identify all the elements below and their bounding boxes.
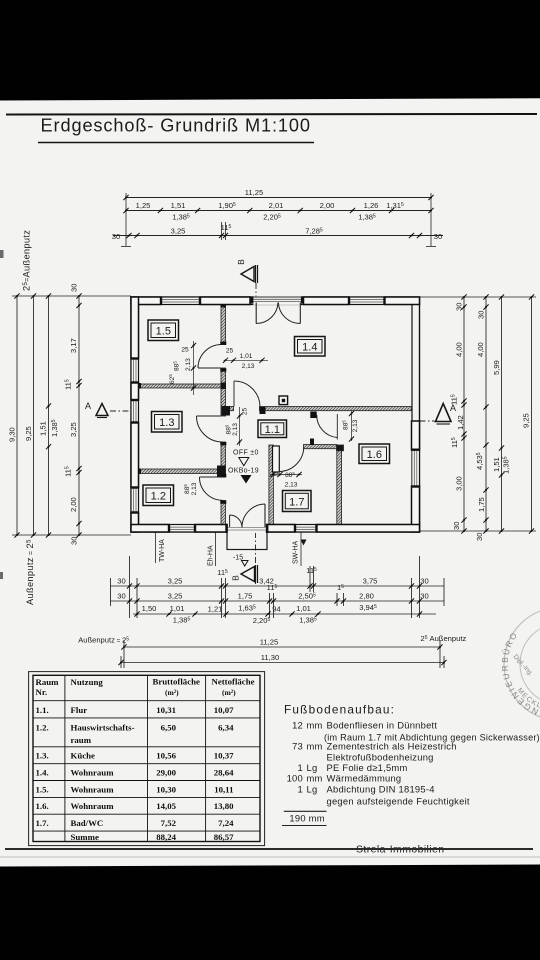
svg-text:1,51: 1,51 bbox=[171, 201, 186, 210]
svg-text:88,24: 88,24 bbox=[156, 832, 176, 842]
svg-text:Raum: Raum bbox=[36, 677, 60, 687]
svg-text:Bodenfliesen in Dünnbett: Bodenfliesen in Dünnbett bbox=[327, 720, 438, 731]
svg-text:6,34: 6,34 bbox=[218, 723, 234, 733]
svg-text:1.7.: 1.7. bbox=[36, 818, 49, 828]
svg-text:25: 25 bbox=[242, 408, 249, 416]
svg-text:2,13: 2,13 bbox=[232, 423, 239, 436]
svg-text:10,37: 10,37 bbox=[214, 751, 234, 761]
svg-text:1: 1 bbox=[298, 762, 303, 773]
svg-text:11,25: 11,25 bbox=[245, 188, 263, 197]
svg-text:1.5.: 1.5. bbox=[36, 784, 49, 794]
svg-text:12: 12 bbox=[292, 720, 303, 731]
svg-text:2,80: 2,80 bbox=[359, 592, 374, 601]
svg-text:2,00: 2,00 bbox=[320, 201, 335, 210]
svg-text:11,25: 11,25 bbox=[260, 638, 278, 647]
svg-text:25: 25 bbox=[273, 471, 281, 478]
svg-text:(m²): (m²) bbox=[165, 688, 179, 697]
svg-text:1,26: 1,26 bbox=[364, 201, 379, 210]
svg-text:30: 30 bbox=[117, 577, 125, 586]
svg-text:7,52: 7,52 bbox=[161, 818, 177, 828]
svg-text:Erdgeschoß- Grundriß M1:100: Erdgeschoß- Grundriß M1:100 bbox=[41, 116, 311, 136]
svg-text:1,75: 1,75 bbox=[477, 497, 486, 512]
svg-text:29,00: 29,00 bbox=[156, 768, 176, 778]
svg-text:mm: mm bbox=[307, 720, 323, 731]
svg-text:gegen aufsteigende Feuchtigkei: gegen aufsteigende Feuchtigkeit bbox=[327, 796, 470, 807]
svg-text:Lg: Lg bbox=[307, 762, 318, 773]
svg-text:10,11: 10,11 bbox=[214, 784, 233, 794]
svg-text:3,25: 3,25 bbox=[171, 227, 186, 236]
svg-text:Hauswirtschafts-: Hauswirtschafts- bbox=[71, 723, 135, 733]
svg-text:Wärmedämmung: Wärmedämmung bbox=[327, 773, 402, 784]
svg-text:2,00: 2,00 bbox=[69, 497, 78, 512]
svg-text:Außenputz = 25: Außenputz = 25 bbox=[25, 539, 35, 605]
svg-text:1,51: 1,51 bbox=[39, 421, 48, 436]
svg-text:Wohnraum: Wohnraum bbox=[71, 784, 115, 794]
svg-text:2,01: 2,01 bbox=[269, 201, 284, 210]
svg-text:30: 30 bbox=[112, 232, 120, 241]
svg-text:1,25: 1,25 bbox=[136, 201, 151, 210]
svg-text:A: A bbox=[450, 403, 456, 413]
svg-text:4,00: 4,00 bbox=[476, 342, 485, 357]
svg-text:1.3.: 1.3. bbox=[36, 751, 49, 761]
svg-text:1,42: 1,42 bbox=[456, 415, 465, 430]
svg-text:TW-HA: TW-HA bbox=[159, 539, 166, 562]
svg-text:1,01: 1,01 bbox=[170, 604, 185, 613]
svg-text:Zementestrich als Heizestrich: Zementestrich als Heizestrich bbox=[327, 741, 457, 752]
svg-text:3,25: 3,25 bbox=[168, 577, 183, 586]
svg-text:Küche: Küche bbox=[71, 751, 96, 761]
svg-text:1,21: 1,21 bbox=[208, 605, 223, 614]
svg-text:1.4.: 1.4. bbox=[36, 768, 49, 778]
svg-text:14,05: 14,05 bbox=[156, 801, 176, 811]
svg-text:A: A bbox=[85, 401, 91, 411]
svg-text:1.3: 1.3 bbox=[159, 417, 174, 429]
svg-text:30: 30 bbox=[420, 592, 428, 601]
svg-text:Abdichtung DIN 18195-4: Abdichtung DIN 18195-4 bbox=[327, 784, 435, 795]
svg-text:1: 1 bbox=[298, 784, 303, 795]
svg-text:6,50: 6,50 bbox=[161, 723, 177, 733]
svg-text:25: 25 bbox=[181, 347, 189, 354]
svg-text:100: 100 bbox=[287, 773, 303, 784]
svg-text:1.2: 1.2 bbox=[151, 491, 166, 503]
svg-text:1.2.: 1.2. bbox=[36, 723, 49, 733]
svg-text:2,13: 2,13 bbox=[285, 482, 298, 489]
svg-text:Lg: Lg bbox=[307, 784, 318, 795]
svg-text:PE Folie d≥1,5mm: PE Folie d≥1,5mm bbox=[327, 762, 408, 773]
svg-text:30: 30 bbox=[70, 284, 79, 292]
svg-text:10,56: 10,56 bbox=[156, 751, 176, 761]
svg-text:28,64: 28,64 bbox=[214, 768, 234, 778]
svg-text:94: 94 bbox=[272, 605, 280, 614]
svg-text:9,25: 9,25 bbox=[522, 413, 531, 428]
svg-text:30: 30 bbox=[70, 537, 79, 545]
svg-text:1.4: 1.4 bbox=[302, 342, 317, 354]
svg-text:3,75: 3,75 bbox=[363, 577, 378, 586]
svg-text:Nutzung: Nutzung bbox=[71, 677, 104, 687]
svg-text:3,17: 3,17 bbox=[69, 338, 78, 353]
svg-text:30: 30 bbox=[455, 303, 464, 311]
svg-text:9,25: 9,25 bbox=[24, 426, 33, 441]
svg-text:10,30: 10,30 bbox=[156, 784, 176, 794]
svg-text:Eh-HA: Eh-HA bbox=[208, 545, 215, 566]
svg-text:Wohnraum: Wohnraum bbox=[71, 768, 115, 778]
svg-text:1,50: 1,50 bbox=[142, 604, 157, 613]
svg-text:Fußbodenaufbau:: Fußbodenaufbau: bbox=[284, 703, 395, 717]
svg-text:Summe: Summe bbox=[71, 832, 99, 842]
svg-text:mm: mm bbox=[307, 773, 323, 784]
svg-text:Elektrofußbodenheizung: Elektrofußbodenheizung bbox=[327, 752, 434, 763]
svg-text:Außenputz = 25: Außenputz = 25 bbox=[78, 636, 129, 645]
svg-text:5,99: 5,99 bbox=[492, 360, 501, 375]
svg-text:30: 30 bbox=[117, 592, 125, 601]
svg-text:raum: raum bbox=[71, 735, 92, 745]
svg-text:1,75: 1,75 bbox=[238, 592, 253, 601]
svg-text:1,01: 1,01 bbox=[240, 353, 253, 360]
svg-text:25: 25 bbox=[226, 348, 234, 355]
svg-text:30: 30 bbox=[434, 232, 442, 241]
svg-text:(m²): (m²) bbox=[222, 688, 236, 697]
svg-text:1.5: 1.5 bbox=[156, 326, 171, 338]
svg-text:1,51: 1,51 bbox=[492, 457, 501, 472]
svg-text:B: B bbox=[236, 259, 246, 265]
svg-text:1.1: 1.1 bbox=[265, 424, 280, 436]
svg-text:190 mm: 190 mm bbox=[289, 813, 324, 824]
svg-text:3,25: 3,25 bbox=[168, 592, 183, 601]
svg-text:2,13: 2,13 bbox=[191, 482, 198, 495]
svg-text:1.6.: 1.6. bbox=[36, 801, 49, 811]
svg-text:30: 30 bbox=[475, 533, 484, 541]
svg-text:SW-HA: SW-HA bbox=[293, 540, 300, 564]
svg-text:2,13: 2,13 bbox=[242, 363, 255, 370]
svg-text:73: 73 bbox=[292, 741, 303, 752]
svg-text:mm: mm bbox=[307, 741, 323, 752]
svg-text:30: 30 bbox=[452, 522, 461, 530]
svg-text:86,57: 86,57 bbox=[214, 832, 234, 842]
svg-text:Wohnraum: Wohnraum bbox=[71, 801, 115, 811]
svg-text:30: 30 bbox=[477, 311, 486, 319]
svg-text:7,24: 7,24 bbox=[218, 818, 234, 828]
svg-text:OFF±0: OFF±0 bbox=[233, 450, 259, 457]
svg-text:Nettofläche: Nettofläche bbox=[212, 677, 255, 687]
svg-text:3,25: 3,25 bbox=[69, 422, 78, 437]
svg-text:4,00: 4,00 bbox=[455, 342, 464, 357]
svg-text:13,80: 13,80 bbox=[214, 801, 234, 811]
svg-text:1.7: 1.7 bbox=[289, 497, 304, 509]
svg-text:10,07: 10,07 bbox=[214, 705, 234, 715]
svg-text:30: 30 bbox=[420, 577, 428, 586]
svg-text:B: B bbox=[231, 575, 241, 581]
svg-text:Bad/WC: Bad/WC bbox=[71, 818, 104, 828]
svg-text:Nr.: Nr. bbox=[36, 687, 48, 697]
svg-text:1.1.: 1.1. bbox=[36, 705, 49, 715]
svg-text:11,30: 11,30 bbox=[261, 653, 279, 662]
svg-text:1.6: 1.6 bbox=[367, 449, 382, 461]
svg-text:1,01: 1,01 bbox=[296, 604, 311, 613]
svg-text:2,13: 2,13 bbox=[352, 419, 359, 432]
svg-text:2,13: 2,13 bbox=[185, 358, 192, 371]
svg-text:9,30: 9,30 bbox=[8, 427, 17, 442]
svg-text:10,31: 10,31 bbox=[156, 705, 176, 715]
svg-text:3,00: 3,00 bbox=[455, 476, 464, 491]
svg-text:OKBo-19: OKBo-19 bbox=[228, 468, 259, 475]
svg-text:Flur: Flur bbox=[71, 705, 88, 715]
svg-text:Bruttofläche: Bruttofläche bbox=[153, 677, 200, 687]
